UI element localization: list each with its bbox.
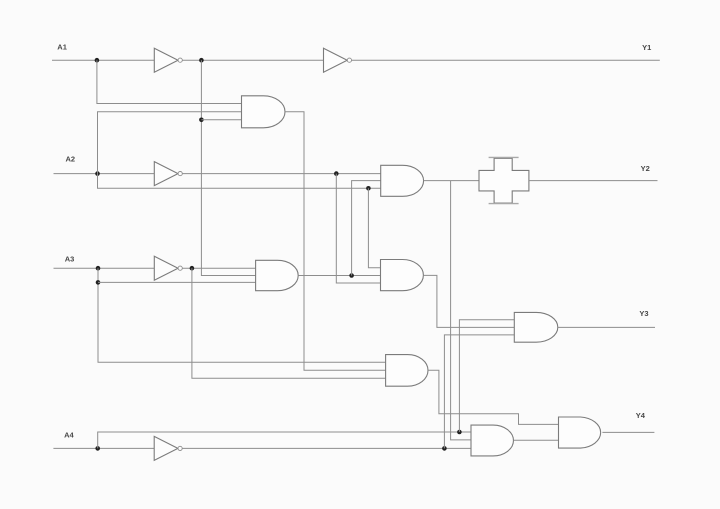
- wire G1 output down to G5 input 2: [285, 112, 386, 370]
- wire A4 rail: [53, 447, 154, 449]
- svg-text:A4: A4: [64, 431, 74, 440]
- cross bottom cap: [489, 203, 519, 205]
- wire B5 output to G7 input 3: [182, 447, 471, 449]
- AND gate G6: [514, 312, 558, 342]
- wire G7 output to G8 input 2: [514, 439, 559, 441]
- wire G4 output down to G6 input 2: [423, 275, 514, 327]
- AND gate G1: [242, 96, 286, 128]
- wire B1 output to B2 input: [182, 59, 323, 61]
- wire A3 branch down to G5 input 1: [98, 268, 386, 362]
- junction B4 output dot: [190, 266, 195, 271]
- svg-text:Y3: Y3: [639, 309, 648, 318]
- wire A1 branch down to G1 input 1: [97, 60, 242, 103]
- svg-text:A3: A3: [65, 254, 75, 263]
- junction B5 output tap dot: [442, 446, 447, 451]
- inverter B5: [154, 436, 178, 460]
- AND gate G5: [386, 355, 428, 387]
- wire G3 output to G4 input 2: [298, 275, 380, 277]
- junction A3 rail dot: [96, 266, 101, 271]
- AND gate G8: [559, 417, 601, 448]
- wire tap down to G4 input 3: [336, 174, 380, 283]
- wire A3 rail: [54, 267, 155, 269]
- inverter B3: [154, 162, 178, 186]
- cross top cap: [489, 156, 519, 158]
- AND gate G3: [256, 260, 299, 290]
- svg-text:A1: A1: [57, 43, 67, 52]
- wire G2 output branch down to G7 input 2: [451, 181, 471, 440]
- wire A2 branch up to G1 input 2: [98, 112, 242, 174]
- junction G1 input 3 tap dot: [199, 118, 204, 123]
- junction A4 branch tap dot: [457, 430, 462, 435]
- junction A4 rail dot: [95, 446, 100, 451]
- wire A2 rail: [54, 173, 155, 175]
- AND gate G4: [381, 260, 424, 291]
- wire G2 output to cross symbol: [424, 180, 479, 182]
- inverter B2: [324, 48, 348, 72]
- wire B1 output branch down: [201, 60, 255, 275]
- junction A1 rail dot: [95, 58, 100, 63]
- junction B3 output tap dot: [334, 171, 339, 176]
- AND gate G2: [381, 165, 424, 196]
- wire tap down to G4 input 1: [368, 188, 380, 267]
- wire A1 rail: [52, 59, 154, 61]
- junction A2 lower branch tap dot: [366, 186, 371, 191]
- wire tap up to G6 input 3: [444, 335, 514, 449]
- inverter B4: [154, 256, 178, 280]
- wire A4 branch up to G7 input 1: [98, 432, 471, 448]
- cross symbol on Y2 net: [479, 158, 529, 203]
- wire B3 output to G2 input 1: [182, 173, 380, 175]
- wire Y2 output: [529, 180, 658, 182]
- junction G3 output tap dot: [349, 273, 354, 278]
- inverter B1: [154, 48, 178, 72]
- wire branch to G3 input 3: [98, 281, 256, 283]
- svg-text:Y1: Y1: [642, 43, 651, 52]
- wire A2 branch down to G2 input 3: [98, 174, 381, 189]
- junction A3 branch dot: [96, 280, 101, 285]
- svg-text:Y2: Y2: [641, 164, 650, 173]
- wire tap to G1 input 3: [201, 119, 241, 121]
- AND gate G7: [471, 425, 513, 456]
- wire tap up to G6 input 1: [459, 320, 514, 432]
- wire B4 output to G3 input 1: [182, 267, 255, 269]
- wire tap up to G2 input 2: [352, 181, 381, 276]
- svg-text:Y4: Y4: [636, 411, 646, 420]
- wire Y1 output: [352, 59, 660, 61]
- junction A2 rail dot: [95, 171, 100, 176]
- wire G5 output stepping down to G8 input 1: [428, 370, 559, 424]
- wire B4 output branch down to G5 input 3: [192, 268, 386, 378]
- svg-text:A2: A2: [66, 154, 76, 163]
- wire Y4 output: [602, 431, 654, 433]
- junction B1 output dot: [199, 58, 204, 63]
- wire Y3 output: [558, 326, 655, 328]
